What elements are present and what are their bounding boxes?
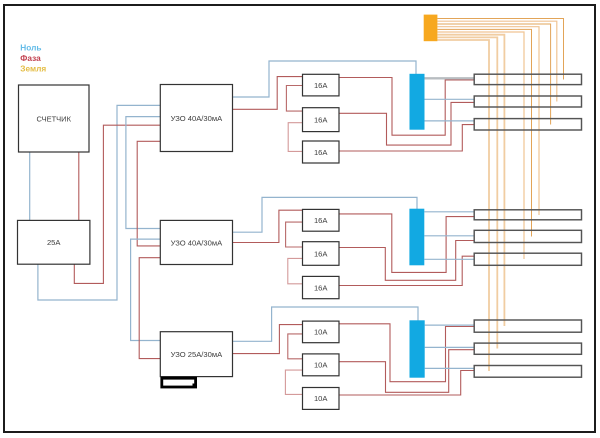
wire L RCD2 to breaker SF4	[233, 210, 303, 242]
busbar N2 cyan	[409, 209, 424, 266]
wire L SF2 to L2	[339, 102, 474, 145]
load outlet L7 border	[474, 320, 581, 332]
wire PE bus to L2	[437, 21, 556, 101]
wire L chain SF4 to SF5	[286, 222, 303, 247]
wire PE bus to L6	[437, 32, 524, 259]
svg-text:16А: 16А	[314, 216, 328, 225]
load outlet L5 border	[474, 230, 581, 242]
electric meter box	[19, 85, 90, 152]
svg-text:10А: 10А	[314, 328, 328, 337]
svg-text:Ноль: Ноль	[20, 42, 41, 52]
wire PE bus to L3	[437, 24, 550, 125]
svg-text:16А: 16А	[314, 148, 328, 157]
wire N busbar N1 to L3	[425, 120, 475, 122]
wire N RCD3 to busbar N3	[233, 307, 419, 341]
breaker SF9 10A	[303, 388, 340, 410]
load outlet L4	[474, 210, 581, 220]
load outlet L2 border	[474, 96, 581, 107]
wire L RCD3 to breaker SF7	[233, 325, 303, 354]
load outlet L8	[474, 343, 581, 354]
load outlet L1	[474, 74, 581, 84]
wire N busbar N2 to L6	[424, 258, 474, 260]
breaker SF4 16A	[303, 209, 340, 231]
svg-text:16А: 16А	[314, 81, 328, 90]
load outlet L4 border	[474, 210, 581, 220]
wire N busbar N2 to L5	[424, 235, 474, 237]
wire PE bus to L1	[437, 19, 563, 80]
wire L SF5 to L5	[339, 241, 474, 281]
junction block below RCD3	[162, 378, 196, 387]
busbar N3 cyan	[410, 320, 425, 377]
wire PE bus to L5	[437, 29, 531, 236]
breaker SF6 16A	[303, 276, 340, 298]
wire L RCD2 to RCD3	[139, 258, 160, 359]
wire N busbar N3 to L7	[425, 324, 475, 326]
load outlet L9	[474, 366, 581, 378]
load outlet L6	[474, 253, 581, 265]
load outlet L6 border	[474, 253, 581, 265]
svg-text:25А: 25А	[47, 238, 61, 247]
RCD2 box	[160, 220, 232, 264]
breaker SF1 16A	[303, 74, 340, 96]
wire L SF3 to L3	[339, 125, 474, 151]
wire L SF6 to L6	[339, 256, 474, 285]
load outlet L7	[474, 320, 581, 332]
wire PE bus to L4	[437, 27, 539, 215]
wire L RCD1 to RCD2	[137, 141, 160, 246]
wire L chain SF1 to SF2	[286, 86, 302, 112]
svg-text:Фаза: Фаза	[20, 53, 41, 63]
wire L RCD1 to breaker SF1	[233, 77, 303, 110]
svg-text:16А: 16А	[314, 283, 328, 292]
wire L SF9 to L9	[339, 371, 474, 396]
wire PE bus to L7	[437, 35, 504, 326]
wire N busbar N2 to L4	[424, 211, 474, 213]
wire L chain SF2 to SF3	[288, 123, 302, 152]
wire PE bus to L9	[437, 40, 489, 371]
svg-text:Земля: Земля	[20, 64, 46, 74]
wire N RCD2 to RCD3	[131, 239, 161, 340]
breaker SF5 16A	[303, 242, 340, 266]
svg-text:10А: 10А	[314, 394, 328, 403]
load outlet L8 border	[474, 343, 581, 354]
svg-text:СЧЕТЧИК: СЧЕТЧИК	[36, 114, 71, 123]
wire L SF4 to L4	[339, 214, 474, 273]
wire N busbar N1 to L1 gray	[425, 77, 475, 79]
breaker SF7 10A	[303, 321, 340, 343]
wire N meter to 25A	[29, 152, 31, 220]
wire L SF7 to L7	[339, 324, 474, 382]
wire N 25A to RCD1	[38, 105, 160, 300]
wire L chain SF5 to SF6	[288, 258, 303, 283]
wire N RCD1 to RCD2	[126, 117, 160, 229]
load outlet L9 border	[474, 366, 581, 378]
svg-text:16А: 16А	[314, 115, 328, 124]
busbar PE orange	[424, 15, 438, 42]
wire L chain SF7 to SF8	[288, 334, 303, 359]
load outlet L5	[474, 230, 581, 242]
svg-text:10А: 10А	[314, 361, 328, 370]
wire N busbar N3 to L8	[425, 346, 475, 348]
svg-text:УЗО 40А/30мА: УЗО 40А/30мА	[171, 114, 223, 123]
wire N RCD1 to busbar N1	[233, 61, 417, 97]
wire N RCD2 to busbar N2	[233, 197, 418, 232]
svg-text:16А: 16А	[314, 249, 328, 258]
svg-text:УЗО 40А/30мА: УЗО 40А/30мА	[171, 238, 223, 247]
load outlet L3	[474, 119, 581, 130]
main breaker 25A box	[18, 220, 90, 264]
breaker SF2 16A	[303, 108, 340, 132]
load outlet L1 border	[474, 74, 581, 84]
load outlet L2	[474, 96, 581, 107]
svg-text:УЗО 25А/30мА: УЗО 25А/30мА	[171, 350, 223, 359]
wire PE bus to L8	[437, 37, 497, 348]
RCD1 box	[160, 85, 232, 152]
breaker SF3 16A	[303, 141, 340, 163]
wire L SF8 to L8	[339, 350, 474, 393]
wire L chain SF8 to SF9	[285, 370, 302, 394]
breaker SF8 10A	[303, 354, 340, 376]
load outlet L3 border	[474, 119, 581, 130]
busbar N1 cyan	[410, 74, 425, 130]
wire L 25A to RCD1	[74, 125, 160, 283]
junction block corner dot	[193, 384, 198, 389]
wire N busbar N3 to L9	[425, 367, 475, 369]
RCD3 box	[160, 332, 232, 377]
wire L meter to 25A	[78, 152, 80, 220]
wire L SF1 to L1	[339, 78, 474, 136]
wire N busbar N1 to L2	[425, 98, 475, 100]
